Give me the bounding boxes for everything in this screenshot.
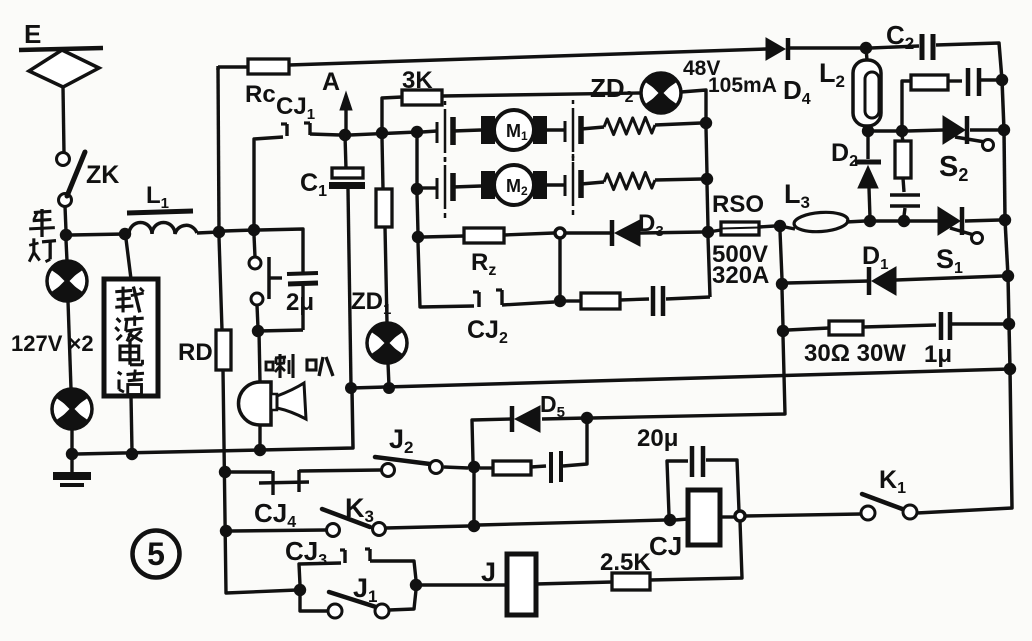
resistor 30ohm <box>829 321 863 335</box>
capacitor 2u <box>301 272 304 274</box>
wire node to coil <box>675 519 688 520</box>
wire resistor-cap branch up <box>902 81 911 126</box>
wire ground row <box>77 390 353 454</box>
wire L1 row to 2u branch <box>224 230 254 231</box>
wire zigzag to bus <box>655 179 702 180</box>
wire 2u bottom row <box>258 330 303 331</box>
wire battery to zigzag <box>581 182 604 184</box>
wire J1 to node <box>389 590 416 610</box>
wire top bus <box>289 49 766 65</box>
wire lamp1-lamp2 <box>68 301 71 389</box>
resistor sub-row <box>493 461 531 475</box>
resistor vertical under 3K node <box>382 138 383 189</box>
node 30ohm row left <box>777 325 789 337</box>
node right bus long-bus row <box>1004 363 1016 375</box>
node right bus 30ohm row <box>1003 318 1015 330</box>
lamp ZD1 <box>367 323 407 363</box>
wire J2 vertical link <box>472 472 475 521</box>
switch J2 <box>382 464 395 477</box>
wire node to resistor <box>565 299 581 302</box>
node sub-row <box>468 461 480 473</box>
node left bus bottom <box>294 584 306 596</box>
wire resistor to ZD1 <box>385 227 387 323</box>
resistor 2.5K <box>612 573 650 590</box>
wire S1 to right bus <box>965 220 1000 221</box>
wire CJ3 left bracket <box>299 563 341 585</box>
capacitor-resistor branch under D5 <box>444 467 468 468</box>
wire K3 to node <box>386 526 469 528</box>
wire L1 to left bus <box>197 232 219 233</box>
node L2 top <box>860 42 872 54</box>
node 3K junction <box>376 127 388 139</box>
wire cap to right bus <box>981 78 998 81</box>
wire node to L1 <box>71 234 125 235</box>
resistor row1 zigzag <box>604 117 655 134</box>
wire CJ2 mid vertical <box>558 238 561 296</box>
wire coil right <box>720 515 734 518</box>
wire box to L1 node <box>126 239 131 279</box>
wire zigzag to node <box>655 123 701 125</box>
wire RSO to L3 node <box>759 226 775 227</box>
wire corner to 2u cap branch <box>259 229 303 272</box>
svg-text:RD: RD <box>178 339 213 366</box>
wire capacitor to bus corner <box>666 297 710 299</box>
node D2 bottom <box>864 215 876 227</box>
wire 25K to CJ node <box>650 521 742 580</box>
node box ground <box>126 448 138 460</box>
node car-lamp junction <box>60 229 72 241</box>
diode D5 <box>510 406 515 432</box>
node left bus J2 row <box>219 466 231 478</box>
contact CJ2 <box>477 292 480 307</box>
thyristor S2 <box>943 116 965 144</box>
node ground junction <box>66 448 78 460</box>
node left-bus / L1 <box>213 226 225 238</box>
contact CJ4 <box>271 471 274 495</box>
node L2 bottom <box>862 125 874 137</box>
wire bus x417 <box>415 137 418 184</box>
wire K3 row to CJ coil <box>479 520 665 525</box>
wire C2 to right corner <box>936 43 1002 80</box>
label 车灯 <box>34 211 52 212</box>
resistor Rc <box>248 59 289 74</box>
battery row1 right <box>564 121 567 142</box>
resistor Rz <box>464 228 504 243</box>
wire 3K branch <box>382 97 402 133</box>
battery row1 left <box>436 122 439 143</box>
battery row2 right <box>564 175 567 196</box>
pushbutton actuator bar <box>267 257 271 299</box>
wire resistor to capacitor <box>620 299 649 300</box>
capacitor below resistor <box>903 178 904 192</box>
node row3 right <box>702 226 714 238</box>
wire D4 to C2 <box>789 46 866 50</box>
wire cap to right bus <box>952 322 1004 325</box>
node row1 bus <box>411 126 423 138</box>
node long bus left <box>345 382 357 394</box>
lamp ZD2 <box>641 73 681 113</box>
wire J coil to 25K <box>536 582 612 584</box>
contact CJ1 <box>285 124 288 136</box>
wire L2 to node <box>867 126 868 131</box>
thyristor S1 <box>938 207 960 235</box>
wire to S1 <box>909 219 938 222</box>
label 喇叭 <box>266 362 273 370</box>
wire right bus <box>1002 80 1004 130</box>
diode D4 <box>766 38 785 60</box>
wire top-left corner <box>216 66 219 70</box>
node CJ right <box>735 511 745 521</box>
diode D2 <box>866 131 869 159</box>
lamp 车灯 upper <box>66 240 67 261</box>
ground <box>70 456 73 472</box>
wire L3 node down <box>780 231 782 279</box>
resistor 3K <box>402 90 442 105</box>
wire vertical to 30ohm row <box>782 289 783 326</box>
wire C1 down to long bus <box>348 189 351 386</box>
svg-text:1μ: 1μ <box>924 341 952 368</box>
node CJ coil left <box>664 514 676 526</box>
resistor upper-right <box>911 75 948 90</box>
wire left bus mid <box>219 237 222 330</box>
wire Rz to node <box>504 233 554 235</box>
box 载波电话 carrier telephone <box>104 279 158 396</box>
wire CJ4 to J2 <box>299 470 381 471</box>
lamp 车灯 lower <box>52 389 92 429</box>
node L1 left / box top <box>119 228 131 240</box>
wire battery to resistor <box>581 127 604 129</box>
node speaker top <box>252 325 264 337</box>
inductor L1 <box>127 211 193 213</box>
wire CJ3 right bracket <box>370 561 416 580</box>
node right bus r-c row <box>996 74 1008 86</box>
wire CJ to K1 <box>745 514 861 516</box>
svg-text:A: A <box>322 68 340 96</box>
node D1 row left <box>776 278 788 290</box>
wire speaker to ground row <box>258 425 261 449</box>
arrow node A <box>344 105 347 135</box>
capacitor sub-row <box>549 452 553 483</box>
wire vertical to D5 corner <box>592 336 785 418</box>
svg-text:2.5K: 2.5K <box>600 549 651 576</box>
node right bus D1 row <box>1002 270 1014 282</box>
svg-text:5: 5 <box>147 536 165 572</box>
wire lamp2 to ground node <box>70 429 73 452</box>
pushbutton contact upper circle <box>254 235 255 257</box>
node left bus K3 row <box>220 525 232 537</box>
wire S2 to right bus <box>970 128 1000 131</box>
wire ZD1 to long bus <box>388 363 389 386</box>
wire long middle bus <box>351 369 1010 388</box>
wire CJ2 left bracket <box>418 242 474 307</box>
wire D1 row <box>787 281 869 283</box>
node row3 bus <box>412 231 424 243</box>
fuse RD <box>216 330 231 370</box>
wire cap to S1 row <box>904 208 905 216</box>
switch K1 <box>861 506 875 520</box>
speaker 喇叭 <box>239 382 272 425</box>
node row2 bus <box>411 183 423 195</box>
wire L3 to D2 node <box>846 221 865 222</box>
wire resistor to cap <box>948 79 962 82</box>
contact CJ3 <box>343 550 346 563</box>
node L3 left <box>774 220 786 232</box>
capacitor upper-right <box>966 68 971 96</box>
capacitor C1 <box>345 135 346 169</box>
wire node to D3 <box>565 231 612 234</box>
resistor CJ2 row <box>581 293 620 309</box>
svg-text:320A: 320A <box>712 262 769 289</box>
capacitor CJ2 row <box>651 286 656 316</box>
pushbutton contact lower circle <box>251 293 263 305</box>
node row3 mid <box>555 228 565 238</box>
wire 3K to ZD2 <box>442 93 641 96</box>
wire S2 row <box>873 129 897 132</box>
wire to resistor <box>788 328 829 330</box>
wire M1 to battery <box>547 128 565 131</box>
wire battery to M2 <box>453 186 481 187</box>
wire J row <box>421 583 507 586</box>
wire S1 row <box>875 219 899 222</box>
svg-text:CJ: CJ <box>649 531 682 561</box>
switch K3 <box>327 524 340 537</box>
node CJ2 row mid <box>554 295 566 307</box>
svg-text:20μ: 20μ <box>637 425 678 452</box>
node J row left <box>410 579 422 591</box>
svg-text:105mA: 105mA <box>708 74 777 97</box>
svg-text:Rc: Rc <box>245 81 276 108</box>
wire resistor to cap <box>863 325 936 327</box>
node row1 right <box>700 117 712 129</box>
node right bus S1 row <box>999 214 1011 226</box>
inductor L3 loop <box>780 226 795 229</box>
capacitor 1u <box>939 312 944 340</box>
switch J1 <box>300 595 328 611</box>
relay coil J <box>507 554 536 615</box>
node D5 right <box>581 412 593 424</box>
wire J2 row left <box>230 470 272 473</box>
svg-text:3K: 3K <box>402 67 433 94</box>
svg-text:RSO: RSO <box>712 191 764 218</box>
node K3/CJ junction <box>468 520 480 532</box>
inductor L2 tube <box>866 48 867 60</box>
wire bus x417 lower <box>417 194 418 233</box>
motor M2 <box>481 171 495 199</box>
svg-text:30Ω 30W: 30Ω 30W <box>804 340 906 367</box>
wire left bus lower <box>223 370 297 593</box>
node speaker ground <box>254 444 266 456</box>
capacitor 20u loop <box>667 461 688 515</box>
wire battery to M1 <box>453 130 481 131</box>
wire left bus upper <box>218 68 219 232</box>
node right bus S2 row <box>998 124 1010 136</box>
wire speaker stem <box>259 331 260 382</box>
svg-text:ZK: ZK <box>86 161 119 189</box>
antenna E <box>19 48 103 50</box>
wire D5 to corner <box>472 419 512 462</box>
wire D1 to right bus <box>896 276 1003 280</box>
relay coil CJ <box>688 490 720 545</box>
node row2 right <box>701 173 713 185</box>
switch ZK <box>57 153 70 166</box>
diode D3 <box>610 220 615 246</box>
wire to C2 <box>871 46 919 48</box>
fuse RSO <box>708 230 721 232</box>
wire CJ1 left <box>254 137 283 225</box>
wire K3 row left <box>231 530 326 531</box>
svg-text:J: J <box>481 557 496 587</box>
wire resistor to cap <box>531 466 546 467</box>
figure number 5 <box>133 531 180 578</box>
diode D1 <box>867 267 872 295</box>
wire row1 <box>350 132 417 135</box>
resistor row2 zigzag <box>604 172 655 189</box>
battery row2 left <box>436 178 439 199</box>
wire M2 to battery <box>547 183 565 186</box>
node r-branch bottom <box>898 215 910 227</box>
wire D3 to bus <box>640 232 703 233</box>
node S2 row resistor branch <box>896 125 908 137</box>
wire ZK to node <box>65 206 66 231</box>
svg-text:2μ: 2μ <box>286 289 314 316</box>
svg-text:127V ×2: 127V ×2 <box>11 331 94 356</box>
wire ZD2 to bus x707 <box>681 90 706 118</box>
node 2u branch top <box>248 224 260 236</box>
wire bus x707 <box>706 128 707 174</box>
wire box bottom to ground row <box>131 396 132 451</box>
resistor vertical below S2 row <box>902 136 903 141</box>
motor M1 <box>481 116 495 144</box>
node A junction <box>339 129 351 141</box>
wire D5 right <box>542 418 587 419</box>
wire to S2 <box>907 130 943 131</box>
node ZD1 bottom <box>383 382 395 394</box>
capacitor C2 <box>920 34 925 60</box>
wire right bus to K1 <box>917 369 1012 513</box>
wire cap up to D5 node <box>563 421 587 466</box>
svg-text:E: E <box>24 19 41 49</box>
